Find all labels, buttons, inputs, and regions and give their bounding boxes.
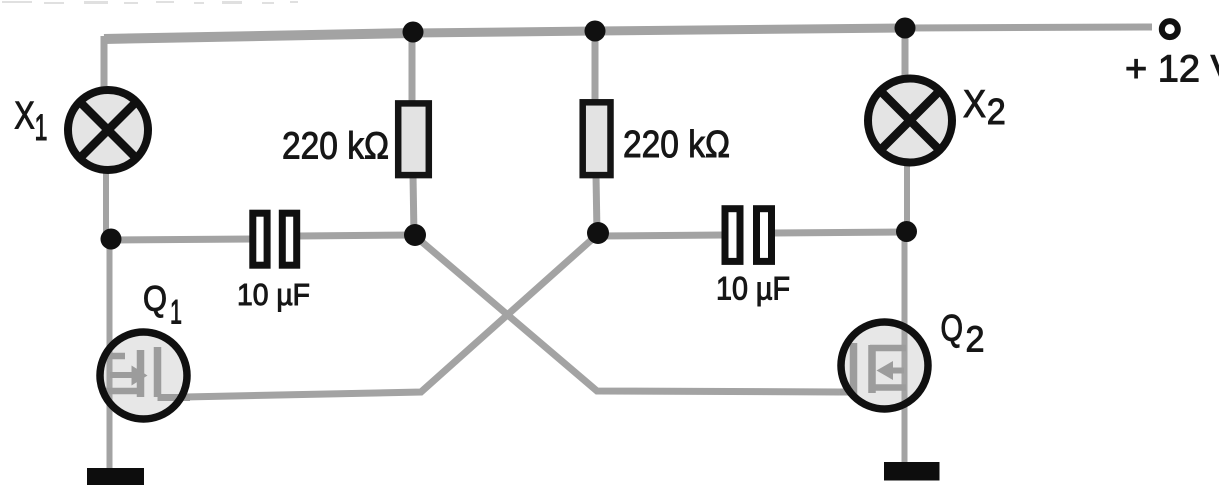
wire: cross-coupling diagonal node C to Q1 gate rail bbox=[185, 234, 598, 397]
transistor Q2 (MOSFET) bbox=[838, 231, 932, 464]
wire: rail to resistor R2 top bbox=[592, 30, 599, 104]
svg-text:Q: Q bbox=[941, 308, 964, 349]
node B junction dot (R1/C1/cross wire) bbox=[404, 224, 426, 246]
wire: C2 right plate to node D bbox=[773, 232, 906, 233]
ground symbol below Q1 bbox=[87, 468, 144, 485]
svg-text:+ 12 V: + 12 V bbox=[1125, 49, 1219, 91]
svg-text:Q: Q bbox=[143, 280, 167, 319]
svg-text:2: 2 bbox=[966, 318, 985, 359]
junction node on rail above R2 bbox=[585, 21, 606, 42]
svg-text:10 µF: 10 µF bbox=[237, 277, 310, 312]
wire: lamp X2 bottom to node D bbox=[904, 160, 910, 232]
capacitor C1 bbox=[253, 213, 297, 265]
wire: resistor R2 bottom to node C bbox=[596, 175, 597, 234]
wire: rail to resistor R1 top bbox=[409, 31, 416, 105]
Q2 gate lead exiting circle bbox=[840, 389, 854, 396]
ground symbol below Q2 bbox=[884, 462, 940, 481]
svg-text:10 µF: 10 µF bbox=[716, 271, 790, 307]
capacitor C2 bbox=[725, 209, 772, 262]
wire: left drop from rail to lamp X1 bbox=[101, 36, 108, 92]
svg-text:X: X bbox=[963, 83, 986, 126]
wire: top +12V rail (middle segment) bbox=[413, 28, 905, 33]
svg-text:220 kΩ: 220 kΩ bbox=[282, 125, 389, 167]
Q2 gate bar bbox=[850, 343, 858, 395]
wire: drain-source rail through Q2 to ground bbox=[902, 231, 908, 464]
Q1 channel bar bbox=[137, 350, 145, 397]
junction node on rail above R1 bbox=[403, 22, 424, 43]
Q1 body arrow bbox=[110, 372, 132, 378]
wire: top +12V rail (left segment) bbox=[104, 33, 413, 39]
Q2 drain lead bbox=[870, 345, 906, 352]
svg-text:2: 2 bbox=[987, 91, 1006, 132]
Q2 channel bar bbox=[868, 345, 876, 393]
wire: C1 right plate to node B bbox=[298, 235, 415, 236]
lamp X1 bbox=[68, 90, 148, 170]
Q1 drain lead bbox=[106, 353, 125, 360]
wire: lamp X1 bottom to node A bbox=[103, 170, 109, 240]
Q2 body arrow bbox=[884, 368, 904, 374]
wire: rail drop to lamp X2 bbox=[902, 27, 909, 84]
svg-text:X: X bbox=[14, 95, 35, 138]
transistor Q1 (MOSFET) bbox=[97, 239, 191, 470]
wire: cross-coupling diagonal node B to Q2 gate rail bbox=[415, 236, 840, 392]
svg-text:1: 1 bbox=[170, 293, 182, 331]
wire: top +12V rail (right segment to terminal) bbox=[905, 27, 1152, 28]
resistor R1 bbox=[398, 103, 429, 175]
Q2 source lead bbox=[870, 384, 906, 391]
wire: resistor R1 bottom to node B bbox=[413, 175, 414, 236]
svg-text:220 kΩ: 220 kΩ bbox=[623, 124, 730, 166]
resistor R2 bbox=[583, 102, 611, 175]
node A junction dot (X1/C1/Q1 drain) bbox=[101, 229, 122, 250]
lamp X2 bbox=[868, 79, 952, 163]
node C junction dot (R2/C2/cross wire) bbox=[587, 222, 609, 244]
Q1 gate lead exiting circle bbox=[158, 394, 191, 401]
Q1 gate bar bbox=[154, 347, 162, 397]
junction node on rail above X2 bbox=[895, 18, 916, 39]
Q1 source lead bbox=[106, 388, 137, 395]
+12V terminal circle bbox=[1162, 21, 1178, 37]
node D junction dot (X2/C2/Q2 drain) bbox=[896, 221, 917, 242]
wire: node C to C2 left plate bbox=[598, 235, 723, 236]
wire: node A to C1 left plate bbox=[111, 239, 253, 240]
svg-text:1: 1 bbox=[35, 107, 48, 148]
wire: drain-source rail through Q1 to ground bbox=[107, 239, 113, 470]
